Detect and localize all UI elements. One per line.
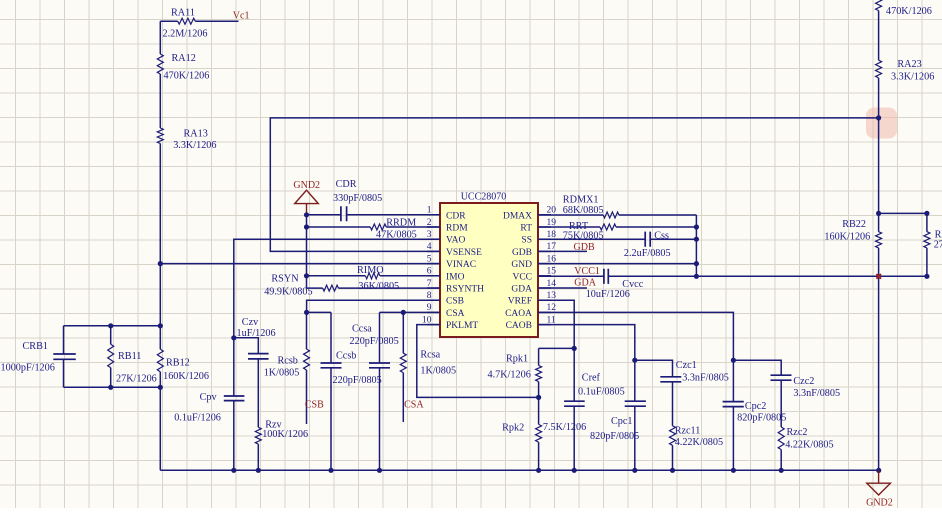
- wire: bottom ground rail: [160, 469, 878, 471]
- svg-text:CAOB: CAOB: [506, 321, 532, 331]
- capacitor Czv 1uF/1206: [248, 354, 269, 359]
- svg-text:Rcsb: Rcsb: [278, 356, 298, 367]
- wire: VSENSE pin4 to top right: [270, 118, 878, 252]
- svg-text:Czc1: Czc1: [676, 360, 697, 371]
- wire: PKLMT pin10: [417, 325, 539, 398]
- svg-text:2.2M/1206: 2.2M/1206: [163, 29, 208, 40]
- svg-text:UCC28070: UCC28070: [461, 192, 507, 203]
- svg-text:3.3nF/0805: 3.3nF/0805: [793, 388, 840, 399]
- svg-text:RA23: RA23: [897, 59, 921, 70]
- wire: GND pin16: [538, 263, 696, 265]
- svg-text:DMAX: DMAX: [503, 211, 532, 221]
- svg-text:Rcsa: Rcsa: [420, 350, 440, 361]
- svg-text:100K/1206: 100K/1206: [262, 429, 308, 440]
- svg-text:Cpc2: Cpc2: [745, 401, 767, 412]
- svg-text:3.3nF/0805: 3.3nF/0805: [682, 373, 729, 384]
- svg-text:9: 9: [427, 303, 432, 313]
- svg-text:PKLMT: PKLMT: [446, 321, 478, 331]
- svg-text:1uF/1206: 1uF/1206: [237, 328, 276, 339]
- pin 17 GDB: [538, 250, 551, 252]
- capacitor Ccsb 220pF/0805: [330, 312, 332, 470]
- svg-text:IMO: IMO: [446, 272, 465, 282]
- resistor Rpk2 7.5K/1206: [538, 397, 540, 470]
- wire: pin20 drop column: [695, 215, 697, 276]
- pin 3 VAO: [427, 238, 440, 240]
- resistor RRDM 47K/0805 pin2: [307, 226, 441, 228]
- svg-text:27K: 27K: [934, 240, 942, 251]
- svg-text:RSYNTH: RSYNTH: [446, 285, 484, 295]
- pin 7 RSYNTH: [427, 287, 440, 289]
- svg-text:CDR: CDR: [336, 179, 357, 190]
- wire: VINAC pin5: [160, 263, 440, 265]
- capacitor Ccsa 220pF/0805: [379, 312, 381, 470]
- svg-text:4.7K/1206: 4.7K/1206: [488, 370, 531, 381]
- svg-text:820pF/0805: 820pF/0805: [590, 431, 639, 442]
- resistor RA12 470K/1206: [157, 54, 163, 74]
- pin 1 CDR: [427, 214, 440, 216]
- pin 4 VSENSE: [427, 250, 440, 252]
- wire: CSB pin8: [307, 300, 440, 312]
- pin 13 VREF: [538, 299, 551, 301]
- pin 11 CAOB: [538, 324, 551, 326]
- svg-text:CSA: CSA: [404, 400, 424, 411]
- svg-text:VINAC: VINAC: [446, 260, 476, 270]
- wire: pin9 CSA row: [307, 311, 440, 313]
- svg-text:VCC: VCC: [512, 272, 532, 282]
- svg-text:220pF/0805: 220pF/0805: [350, 336, 399, 347]
- op-amp U1 UCC28070 body: [440, 203, 538, 337]
- ground GND2 bottom symbol: [876, 468, 881, 473]
- capacitor Css 2.2uF/0805 pin18: [538, 238, 696, 240]
- pin 5 VINAC: [427, 263, 440, 265]
- svg-text:7.5K/1206: 7.5K/1206: [543, 422, 586, 433]
- wire: to Czc2: [733, 360, 781, 375]
- resistor Rzc2 4.22K/0805: [778, 427, 784, 450]
- resistor RB22 160K/1206: [876, 232, 882, 248]
- wire: GND2 column: [306, 215, 308, 288]
- svg-text:3.3K/1206: 3.3K/1206: [173, 140, 216, 151]
- svg-text:220pF/0805: 220pF/0805: [333, 375, 382, 386]
- svg-text:Ccsb: Ccsb: [336, 350, 356, 361]
- svg-text:Rpk2: Rpk2: [502, 423, 524, 434]
- node GDB pin17: [538, 250, 587, 252]
- svg-text:Rpk1: Rpk1: [506, 354, 528, 365]
- svg-text:1: 1: [427, 206, 432, 216]
- svg-text:47K/0805: 47K/0805: [376, 229, 417, 240]
- svg-text:RA12: RA12: [172, 53, 196, 64]
- svg-text:12: 12: [547, 303, 557, 313]
- resistor RSYN 49.9K/0805 pin7: [307, 287, 441, 289]
- svg-text:Cpv: Cpv: [200, 392, 218, 403]
- svg-text:13: 13: [547, 291, 557, 301]
- svg-text:CSB: CSB: [446, 297, 464, 307]
- svg-text:470K/1206: 470K/1206: [886, 6, 932, 17]
- svg-text:Rzc2: Rzc2: [787, 427, 808, 438]
- resistor Rcsb 1K/0805: [306, 312, 308, 424]
- junction dots CS row: [304, 310, 309, 315]
- svg-text:160K/1206: 160K/1206: [824, 232, 870, 243]
- pin 9 CSA: [427, 311, 440, 313]
- capacitor Cpc2 820pF/0805: [732, 360, 734, 470]
- resistor RIMO 36K/0805 pin6: [307, 275, 441, 277]
- resistor RB11 27K/1206: [108, 344, 114, 367]
- pin 18 SS: [538, 238, 551, 240]
- svg-text:RB12: RB12: [166, 357, 190, 368]
- svg-text:1K/0805: 1K/0805: [420, 365, 456, 376]
- capacitor Cpc1 820pF/0805: [634, 360, 636, 470]
- svg-text:10uF/1206: 10uF/1206: [586, 289, 630, 300]
- capacitor Czc1 3.3nF/0805: [660, 377, 681, 382]
- wire: Rpk1 top to VREF: [539, 347, 575, 349]
- svg-text:68K/0805: 68K/0805: [563, 205, 604, 216]
- ground GND2 top symbol: [295, 190, 319, 203]
- capacitor Cref 0.1uF/0805: [573, 348, 575, 470]
- svg-text:GND: GND: [511, 260, 532, 270]
- svg-text:GDB: GDB: [512, 248, 532, 258]
- svg-text:SS: SS: [521, 236, 532, 246]
- svg-text:3.3K/1206: 3.3K/1206: [891, 72, 934, 83]
- svg-text:Cpc1: Cpc1: [611, 416, 633, 427]
- resistor RB12 160K/1206: [157, 349, 163, 372]
- svg-text:RT: RT: [520, 224, 532, 234]
- svg-text:0.1uF/1206: 0.1uF/1206: [174, 413, 221, 424]
- svg-text:Ccsa: Ccsa: [352, 324, 372, 335]
- junction dots VAO: [231, 335, 236, 340]
- capacitor Cvcc 10uF/1206 pin15 VCC: [538, 275, 927, 277]
- svg-text:Cref: Cref: [582, 373, 601, 384]
- junction dots RB block: [108, 323, 113, 328]
- svg-text:CSB: CSB: [305, 399, 324, 410]
- svg-text:GDB: GDB: [574, 242, 595, 253]
- svg-text:0.1uF/0805: 0.1uF/0805: [578, 387, 625, 398]
- selection highlight marker: [866, 108, 897, 139]
- wire + capacitor CDR pin1 330pF/0805: [307, 214, 441, 216]
- svg-text:19: 19: [547, 218, 557, 228]
- svg-text:Czc2: Czc2: [793, 376, 814, 387]
- svg-text:17: 17: [547, 242, 557, 252]
- pin 6 IMO: [427, 275, 440, 277]
- svg-text:RA13: RA13: [184, 128, 208, 139]
- pin 20 DMAX: [538, 214, 551, 216]
- svg-text:CAOA: CAOA: [505, 309, 532, 319]
- svg-text:4.22K/0805: 4.22K/0805: [785, 439, 833, 450]
- wire: CAOB pin11: [538, 325, 635, 361]
- svg-text:14: 14: [547, 279, 557, 289]
- svg-text:CSA: CSA: [446, 309, 465, 319]
- svg-text:RA11: RA11: [171, 7, 195, 18]
- svg-text:20: 20: [547, 206, 557, 216]
- svg-text:5: 5: [427, 254, 432, 264]
- capacitor Czc2 3.3nF/0805: [771, 375, 792, 380]
- junction dots bottom rail: [328, 468, 333, 473]
- wire: RB11/CRB1 loop: [64, 326, 161, 388]
- svg-text:RRDM: RRDM: [386, 217, 416, 228]
- svg-text:GND2: GND2: [866, 497, 893, 508]
- pin 10 PKLMT: [427, 324, 440, 326]
- svg-text:1000pF/1206: 1000pF/1206: [1, 362, 55, 373]
- no-ERC marker red cross: [876, 274, 881, 279]
- svg-text:RIMO: RIMO: [357, 265, 384, 276]
- svg-text:36K/0805: 36K/0805: [358, 281, 399, 292]
- wire: VAO pin3 net: [234, 239, 440, 470]
- svg-text:10: 10: [422, 315, 432, 325]
- svg-text:Rzc11: Rzc11: [675, 426, 701, 437]
- svg-text:RB11: RB11: [118, 351, 141, 362]
- resistor right edge clipped: [926, 213, 928, 276]
- svg-text:3: 3: [427, 230, 432, 240]
- svg-text:6: 6: [427, 267, 432, 277]
- svg-text:RSYN: RSYN: [271, 273, 299, 284]
- svg-text:VSENSE: VSENSE: [446, 248, 482, 258]
- svg-text:330pF/0805: 330pF/0805: [333, 193, 382, 204]
- resistor Rzc11 4.22K/0805: [670, 426, 676, 446]
- svg-text:470K/1206: 470K/1206: [164, 70, 210, 81]
- svg-text:GND2: GND2: [293, 180, 320, 191]
- svg-text:2: 2: [427, 218, 432, 228]
- svg-text:27K/1206: 27K/1206: [116, 374, 157, 385]
- svg-text:Vc1: Vc1: [233, 10, 250, 21]
- svg-text:RDM: RDM: [446, 224, 468, 234]
- svg-text:11: 11: [547, 315, 556, 325]
- wire: VREF pin13: [538, 300, 574, 348]
- wire: RB22 top link: [879, 212, 927, 214]
- wire: to Czc1: [635, 360, 673, 377]
- resistor Rpk1 4.7K/1206: [538, 348, 540, 397]
- pin 15 VCC: [538, 275, 551, 277]
- svg-text:160K/1206: 160K/1206: [163, 371, 209, 382]
- svg-text:8: 8: [427, 291, 432, 301]
- wire: CAOA pin12: [538, 312, 733, 360]
- svg-text:GDA: GDA: [511, 285, 532, 295]
- svg-text:15: 15: [547, 267, 557, 277]
- node GDA pin14: [538, 287, 587, 289]
- resistor RA11 2.2M/1206: [178, 18, 196, 24]
- junction dots GND2 column: [304, 212, 309, 217]
- capacitor Cpv 0.1uF/1206: [224, 396, 245, 401]
- pin 2 RDM: [427, 226, 440, 228]
- resistor 470K/1206 top right: [876, 0, 882, 11]
- pin 8 CSB: [427, 299, 440, 301]
- wire: top-left column: [160, 20, 238, 22]
- svg-text:2.2uF/0805: 2.2uF/0805: [624, 248, 671, 259]
- pin 14 GDA: [538, 287, 551, 289]
- pin 12 CAOA: [538, 311, 551, 313]
- svg-text:VREF: VREF: [508, 297, 532, 307]
- pin 16 GND: [538, 263, 551, 265]
- resistor RA13 3.3K/1206: [157, 128, 163, 144]
- svg-text:7: 7: [427, 279, 432, 289]
- svg-text:VCC1: VCC1: [574, 266, 600, 277]
- svg-text:1K/0805: 1K/0805: [264, 368, 300, 379]
- svg-text:RDMX1: RDMX1: [563, 195, 599, 206]
- junction VSENSE divider: [876, 115, 881, 120]
- svg-text:4.22K/0805: 4.22K/0805: [675, 437, 723, 448]
- svg-text:820pF/0805: 820pF/0805: [737, 412, 786, 423]
- pin 19 RT: [538, 226, 551, 228]
- resistor RRT 75K/0805 pin19: [538, 226, 696, 228]
- svg-text:16: 16: [547, 254, 557, 264]
- resistor RDMX1 68K/0805 pin20: [538, 214, 696, 216]
- svg-text:GDA: GDA: [574, 277, 596, 288]
- svg-text:CRB1: CRB1: [23, 341, 48, 352]
- svg-text:RB22: RB22: [842, 219, 866, 230]
- svg-text:75K/0805: 75K/0805: [563, 231, 604, 242]
- svg-text:49.9K/0805: 49.9K/0805: [264, 287, 312, 298]
- svg-text:4: 4: [427, 242, 432, 252]
- svg-text:Css: Css: [654, 231, 669, 242]
- capacitor CRB1 1000pF/1206: [53, 354, 76, 359]
- svg-text:VAO: VAO: [446, 236, 465, 246]
- resistor Rcsa 1K/0805: [402, 312, 404, 422]
- svg-text:CDR: CDR: [446, 211, 466, 221]
- svg-text:18: 18: [547, 230, 557, 240]
- resistor Rzv 100K/1206: [255, 427, 261, 444]
- svg-text:Czv: Czv: [242, 317, 259, 328]
- resistor RA23 3.3K/1206: [876, 60, 882, 78]
